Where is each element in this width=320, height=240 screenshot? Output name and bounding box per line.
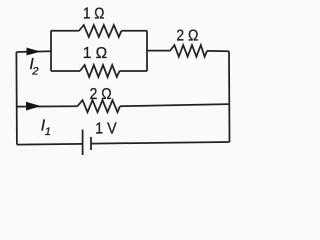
svg-text:2 Ω: 2 Ω — [90, 86, 112, 103]
svg-text:1: 1 — [45, 126, 51, 138]
svg-text:1 V: 1 V — [95, 121, 117, 138]
svg-text:2 Ω: 2 Ω — [176, 28, 198, 45]
svg-text:1 Ω: 1 Ω — [83, 6, 105, 23]
svg-text:2: 2 — [31, 65, 39, 77]
svg-text:1 Ω: 1 Ω — [83, 45, 108, 62]
